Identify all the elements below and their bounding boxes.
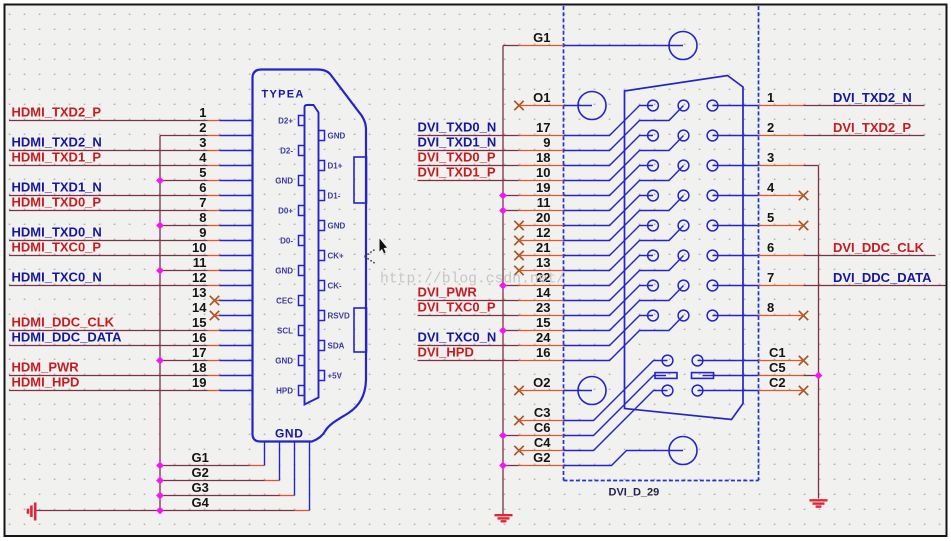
svg-text:DVI_DDC_CLK: DVI_DDC_CLK: [833, 240, 925, 255]
svg-text:DVI_D_29: DVI_D_29: [609, 487, 660, 499]
pin C5 line: [703, 375, 759, 377]
wire DVI pin C5 to ground bus: [759, 375, 804, 377]
wire HDMI pin 16: [9, 345, 208, 347]
wire stub DVI pin 5: [759, 225, 804, 227]
svg-text:G2: G2: [533, 450, 550, 465]
shell hole O1: [578, 92, 606, 120]
svg-text:17: 17: [536, 120, 550, 135]
flat pin C5 right: [692, 373, 714, 379]
pin 7 of DVI connector: [713, 285, 759, 287]
cursor cross mark: [365, 249, 377, 264]
svg-text:12: 12: [192, 270, 206, 285]
wire DVI pin 1: [759, 105, 804, 107]
wire ground G4: [35, 510, 294, 512]
pin 14 of DVI connector: [564, 256, 684, 301]
pad pin 17 GND: [299, 356, 305, 366]
pin G4 of HDMI connector: [309, 442, 311, 511]
wire HDMI pin 1: [9, 120, 208, 122]
wire DVI_TXC0_N to DVI pin 24: [418, 345, 519, 347]
svg-text:12: 12: [536, 225, 550, 240]
svg-text:GND: GND: [275, 176, 293, 185]
wire stub HDMI pin 13: [215, 300, 220, 302]
pin hole analog: [692, 355, 703, 366]
flat pin C5 left: [655, 373, 677, 379]
mounting tab lower: [354, 308, 367, 352]
pin 6 of HDMI connector: [220, 195, 252, 197]
wire DVI_HPD to DVI pin 16: [418, 360, 519, 362]
svg-text:HDMI_HPD: HDMI_HPD: [12, 375, 80, 390]
svg-text:HDM_PWR: HDM_PWR: [12, 360, 80, 375]
pin hole analog: [692, 385, 703, 396]
wire HDMI pin 4: [9, 165, 208, 167]
pad pin 10 CK+: [319, 251, 325, 261]
wire HDMI shield pin 11: [160, 270, 208, 272]
junction HDMI pin 8: [156, 222, 164, 230]
wire ground to DVI pin 22: [503, 285, 519, 287]
svg-text:HDMI_TXD0_P: HDMI_TXD0_P: [12, 195, 102, 210]
pin C4 line: [564, 391, 668, 451]
wire ground G3: [160, 495, 280, 497]
svg-text:HDMI_TXD2_N: HDMI_TXD2_N: [12, 135, 102, 150]
svg-text:2: 2: [199, 120, 206, 135]
pad pin 19 HPD: [299, 386, 305, 396]
svg-text:9: 9: [543, 135, 550, 150]
pin hole row 8 col C: [707, 310, 718, 321]
pin 3 of DVI connector: [713, 165, 759, 167]
svg-text:C4: C4: [534, 435, 551, 450]
pin 18 of DVI connector: [564, 136, 654, 166]
svg-text:HDMI_DDC_DATA: HDMI_DDC_DATA: [12, 330, 123, 345]
svg-text:6: 6: [767, 240, 774, 255]
cursor arrow: [380, 239, 388, 254]
svg-text:19: 19: [192, 375, 206, 390]
no-connect X DVI pin C1: [799, 356, 808, 365]
pin 21 of DVI connector: [564, 226, 654, 256]
pin 6 of DVI connector: [713, 255, 759, 257]
pad pin 14 RSVD: [319, 311, 325, 321]
svg-text:1: 1: [767, 90, 774, 105]
svg-text:DVI_TXC0_P: DVI_TXC0_P: [418, 300, 496, 315]
pad pin 3 D2-: [299, 146, 305, 156]
wire HDMI shield pin 8: [160, 225, 208, 227]
junction DVI pin C6: [499, 432, 507, 440]
wire stub DVI pin 4: [759, 195, 804, 197]
svg-text:DVI_TXD0_N: DVI_TXD0_N: [418, 120, 497, 135]
wire HDMI pin 9: [9, 240, 208, 242]
junction DVI pin G2: [499, 462, 507, 470]
svg-text:3: 3: [767, 150, 774, 165]
no-connect X pin O1: [514, 101, 523, 110]
pin G2 line: [564, 451, 684, 466]
wire stub DVI pin O2: [519, 390, 564, 392]
no-connect X DVI pin C4: [514, 446, 523, 455]
wire DVI_PWR to DVI pin 14: [418, 300, 519, 302]
wire ground bus DVI right x=818.5: [818, 166, 820, 499]
pin hole row 7 col A: [648, 280, 659, 291]
no-connect X DVI pin C3: [514, 416, 523, 425]
pad pin 13 CEC: [299, 296, 305, 306]
wire HDMI pin 15: [9, 330, 208, 332]
wire stub DVI pin C2: [759, 390, 804, 392]
svg-text:24: 24: [536, 330, 551, 345]
pin 11 of DVI connector: [564, 166, 684, 211]
pin hole row 4 col A: [648, 190, 659, 201]
pin C6 line: [564, 376, 667, 436]
junction DVI pin 11: [499, 207, 507, 215]
pin 15 of HDMI connector: [220, 330, 252, 332]
wire HDMI pin 18: [9, 375, 208, 377]
wire stub O1: [519, 105, 564, 107]
wire HDMI pin 3: [9, 150, 208, 152]
svg-text:HDMI_TXD1_P: HDMI_TXD1_P: [12, 150, 102, 165]
wire HDMI pin 6: [9, 195, 208, 197]
svg-text:C1: C1: [769, 345, 786, 360]
no-connect X DVI pin 13: [514, 266, 523, 275]
wire HDMI shield pin 5: [160, 180, 208, 182]
svg-text:DVI_TXD1_N: DVI_TXD1_N: [418, 135, 497, 150]
pin 24 of DVI connector: [564, 316, 654, 346]
svg-text:SCL: SCL: [277, 326, 293, 335]
pin hole row 2 col A: [648, 130, 659, 141]
svg-text:4: 4: [767, 180, 775, 195]
pin 20 of DVI connector: [564, 196, 654, 226]
pin 13 of HDMI connector: [220, 300, 252, 302]
pin 14 of HDMI connector: [220, 315, 252, 317]
svg-text:D2+: D2+: [278, 116, 293, 125]
wire stub DVI pin 8: [759, 315, 804, 317]
pin 1 of HDMI connector: [220, 120, 252, 122]
wire DVI_TXD0_P to DVI pin 18: [418, 165, 519, 167]
svg-text:GND: GND: [328, 221, 346, 230]
pin hole row 8 col A: [648, 310, 659, 321]
junction ground G4: [156, 507, 164, 515]
pin hole row 1 col B: [678, 100, 689, 111]
wire DVI_TXC0_P to DVI pin 23: [418, 315, 519, 317]
pad pin 16 SDA: [319, 341, 325, 351]
pad pin 2 GND: [319, 131, 325, 141]
pin hole row 6 col C: [707, 250, 718, 261]
pin hole analog: [662, 385, 673, 396]
no-connect X DVI pin 5: [799, 221, 808, 230]
svg-text:DVI_TXC0_N: DVI_TXC0_N: [418, 330, 497, 345]
wire stub DVI pin 21: [519, 255, 564, 257]
wire stub DVI pin 12: [519, 240, 564, 242]
pin hole row 4 col B: [678, 190, 689, 201]
pin hole row 7 col B: [678, 280, 689, 291]
svg-text:DVI_TXD0_P: DVI_TXD0_P: [418, 150, 496, 165]
svg-text:23: 23: [536, 300, 550, 315]
svg-text:http://blog.csdn.net/: http://blog.csdn.net/: [380, 272, 565, 288]
pin G1 of HDMI connector: [264, 442, 266, 466]
wire ground bus HDMI shields x=160: [159, 136, 161, 511]
svg-text:18: 18: [192, 360, 206, 375]
pin 10 of DVI connector: [564, 136, 684, 181]
svg-text:15: 15: [536, 315, 550, 330]
pin 23 of DVI connector: [564, 286, 654, 316]
svg-text:14: 14: [192, 300, 207, 315]
svg-text:RSVD: RSVD: [328, 311, 350, 320]
pin hole row 6 col A: [648, 250, 659, 261]
wire ground G1: [160, 465, 250, 467]
pin 8 of HDMI connector: [220, 225, 252, 227]
wire DVI pin 3 to ground bus: [759, 165, 804, 167]
svg-text:G4: G4: [192, 495, 210, 510]
pin 9 of DVI connector: [564, 106, 684, 151]
svg-text:C6: C6: [534, 420, 551, 435]
pin hole row 6 col B: [678, 250, 689, 261]
no-connect X DVI pin O2: [514, 386, 523, 395]
svg-text:10: 10: [192, 240, 206, 255]
no-connect X DVI pin 21: [514, 251, 523, 260]
connector DVI body: [625, 76, 744, 420]
no-connect X DVI pin C2: [799, 386, 808, 395]
svg-text:O1: O1: [533, 90, 550, 105]
svg-text:CEC: CEC: [276, 296, 293, 305]
pin 12 of HDMI connector: [220, 285, 252, 287]
pin 17 of DVI connector: [564, 106, 654, 136]
junction ground G1: [156, 462, 164, 470]
pin G3 of HDMI connector: [294, 442, 296, 496]
pin hole analog: [662, 355, 673, 366]
wire stub DVI pin C3: [519, 420, 564, 422]
pin hole row 5 col A: [648, 220, 659, 231]
wire HDMI shield pin 17: [160, 360, 208, 362]
svg-text:CK+: CK+: [328, 251, 345, 260]
pin 9 of HDMI connector: [220, 240, 252, 242]
no-connect X DVI pin 4: [799, 191, 808, 200]
svg-text:13: 13: [536, 255, 550, 270]
wire HDMI pin 12: [9, 285, 208, 287]
shell hole G2: [669, 437, 697, 465]
pad pin 18 +5V: [319, 371, 325, 381]
wire DVI_TXD1_N to DVI pin 9: [418, 150, 519, 152]
no-connect X HDMI pin 13: [210, 296, 219, 305]
pin 16 of HDMI connector: [220, 345, 252, 347]
svg-text:6: 6: [199, 180, 206, 195]
wire ground bus DVI left x=503: [502, 46, 504, 515]
svg-text:D0+: D0+: [278, 206, 293, 215]
svg-text:D1+: D1+: [328, 161, 343, 170]
svg-text:HDMI_DDC_CLK: HDMI_DDC_CLK: [12, 315, 115, 330]
svg-text:HDMI_TXD1_N: HDMI_TXD1_N: [12, 180, 102, 195]
pad pin 7 D0+: [299, 206, 305, 216]
pin 4 of DVI connector: [713, 195, 759, 197]
junction ground G2: [156, 477, 164, 485]
junction HDMI pin 5: [156, 177, 164, 185]
wire HDMI pin 7: [9, 210, 208, 212]
pin 2 of HDMI connector: [220, 135, 252, 137]
mounting tab upper: [354, 157, 367, 203]
pin 2 of DVI connector: [713, 135, 759, 137]
svg-text:9: 9: [199, 225, 206, 240]
svg-text:4: 4: [199, 150, 207, 165]
svg-text:10: 10: [536, 165, 550, 180]
pin 19 of HDMI connector: [220, 390, 252, 392]
no-connect X DVI pin 12: [514, 236, 523, 245]
svg-text:+5V: +5V: [328, 371, 343, 380]
connector HDMI TYPEA body: [253, 70, 367, 442]
pin 7 of HDMI connector: [220, 210, 252, 212]
svg-text:7: 7: [199, 195, 206, 210]
pin hole row 3 col A: [648, 160, 659, 171]
pin hole row 1 col C: [707, 100, 718, 111]
svg-text:8: 8: [767, 300, 774, 315]
pad pin 5 GND: [299, 176, 305, 186]
wire DVI pin 2: [759, 135, 804, 137]
svg-text:20: 20: [536, 210, 550, 225]
svg-text:C2: C2: [769, 375, 786, 390]
wire stub DVI pin C1: [759, 360, 804, 362]
svg-text:DVI_HPD: DVI_HPD: [418, 345, 474, 360]
HDMI tongue: [305, 105, 319, 405]
pin 10 of HDMI connector: [220, 255, 252, 257]
svg-text:19: 19: [536, 180, 550, 195]
sheet symbol DVI_D_29 dashed box: [564, 6, 759, 481]
svg-text:13: 13: [192, 285, 206, 300]
junction DVI pin 19: [499, 192, 507, 200]
wire ground to DVI pin G2: [503, 465, 519, 467]
pin C3 line: [564, 361, 668, 421]
junction HDMI pin 11: [156, 267, 164, 275]
svg-text:DVI_DDC_DATA: DVI_DDC_DATA: [833, 270, 932, 285]
wire stub HDMI pin 14: [215, 315, 220, 317]
pin hole row 2 col B: [678, 130, 689, 141]
junction HDMI pin 17: [156, 357, 164, 365]
pin C2 line: [698, 390, 759, 392]
pad pin 1 D2+: [299, 116, 305, 126]
pin 22 of DVI connector: [564, 256, 654, 286]
svg-text:8: 8: [199, 210, 206, 225]
svg-text:DVI_TXD1_P: DVI_TXD1_P: [418, 165, 496, 180]
pin 12 of DVI connector: [564, 196, 684, 241]
svg-text:2: 2: [767, 120, 774, 135]
wire ground to DVI pin 11: [503, 210, 519, 212]
pin 3 of HDMI connector: [220, 150, 252, 152]
pin O1 line: [564, 105, 593, 107]
wire ground to DVI pin 19: [503, 195, 519, 197]
svg-text:GND: GND: [328, 131, 346, 140]
svg-text:16: 16: [536, 345, 550, 360]
svg-text:18: 18: [536, 150, 550, 165]
junction DVI pin 22: [499, 282, 507, 290]
pin hole row 2 col C: [707, 130, 718, 141]
pin G1 line: [564, 45, 684, 47]
svg-text:D2-: D2-: [280, 146, 293, 155]
svg-text:3: 3: [199, 135, 206, 150]
wire HDMI pin 19: [9, 390, 208, 392]
svg-text:11: 11: [537, 195, 551, 210]
pin 17 of HDMI connector: [220, 360, 252, 362]
pad pin 12 CK-: [319, 281, 325, 291]
pin 8 of DVI connector: [713, 315, 759, 317]
svg-text:17: 17: [192, 345, 206, 360]
pin 19 of DVI connector: [564, 166, 654, 196]
wire stub DVI pin 13: [519, 270, 564, 272]
svg-text:DVI_TXD2_N: DVI_TXD2_N: [833, 90, 912, 105]
pin 4 of HDMI connector: [220, 165, 252, 167]
svg-text:15: 15: [192, 315, 206, 330]
svg-text:5: 5: [767, 210, 774, 225]
svg-text:DVI_TXD2_P: DVI_TXD2_P: [833, 120, 911, 135]
wire HDMI shield pin 2: [160, 135, 208, 137]
junction ground G3: [156, 492, 164, 500]
wire HDMI pin 10: [9, 255, 208, 257]
wire DVI pin 7: [759, 285, 804, 287]
svg-text:G3: G3: [192, 480, 209, 495]
junction DVI pin C5: [815, 372, 823, 380]
no-connect X DVI pin 20: [514, 221, 523, 230]
shell hole G1: [669, 32, 697, 60]
svg-text:GND: GND: [275, 356, 293, 365]
svg-text:TYPEA: TYPEA: [262, 89, 305, 101]
wire ground G2: [160, 480, 265, 482]
svg-text:HDMI_TXC0_P: HDMI_TXC0_P: [12, 240, 102, 255]
ground symbol left: [28, 503, 35, 521]
pin C1 line: [698, 360, 759, 362]
svg-text:G1: G1: [192, 450, 209, 465]
svg-text:C3: C3: [534, 405, 551, 420]
pin 11 of HDMI connector: [220, 270, 252, 272]
svg-text:5: 5: [199, 165, 206, 180]
wire node G1: [503, 45, 519, 47]
svg-text:21: 21: [536, 240, 550, 255]
wire ground to DVI pin 15: [503, 330, 519, 332]
svg-text:C5: C5: [769, 360, 786, 375]
wire DVI_TXD0_N to DVI pin 17: [418, 135, 519, 137]
pad pin 6 D1-: [319, 191, 325, 201]
pin hole row 5 col B: [678, 220, 689, 231]
svg-text:11: 11: [193, 255, 207, 270]
pin hole row 4 col C: [707, 190, 718, 201]
pin 1 of DVI connector: [713, 105, 759, 107]
svg-text:O2: O2: [533, 375, 550, 390]
svg-text:D1-: D1-: [328, 191, 341, 200]
pin O2 line: [564, 390, 593, 392]
svg-text:D0-: D0-: [280, 236, 293, 245]
pin G2 of HDMI connector: [279, 442, 281, 481]
pin 13 of DVI connector: [564, 226, 684, 271]
svg-text:G2: G2: [192, 465, 209, 480]
pad pin 9 D0-: [299, 236, 305, 246]
ground symbol DVI left: [495, 515, 513, 521]
svg-text:HDMI_TXC0_N: HDMI_TXC0_N: [12, 270, 102, 285]
wire stub DVI pin 20: [519, 225, 564, 227]
svg-text:HPD: HPD: [276, 386, 293, 395]
shell hole O2: [578, 377, 606, 405]
svg-text:CK-: CK-: [328, 281, 343, 290]
pad pin 15 SCL: [299, 326, 305, 336]
pin 5 of DVI connector: [713, 225, 759, 227]
svg-text:7: 7: [767, 270, 774, 285]
pin hole row 8 col B: [678, 310, 689, 321]
svg-text:GND: GND: [275, 266, 293, 275]
svg-text:G1: G1: [533, 30, 550, 45]
pad pin 8 GND: [319, 221, 325, 231]
pad pin 11 GND: [299, 266, 305, 276]
no-connect X HDMI pin 14: [210, 311, 219, 320]
pad pin 4 D1+: [319, 161, 325, 171]
ground symbol DVI right: [810, 500, 828, 506]
svg-text:HDMI_TXD2_P: HDMI_TXD2_P: [12, 105, 102, 120]
pin hole row 3 col B: [678, 160, 689, 171]
svg-text:SDA: SDA: [328, 341, 345, 350]
pin hole row 7 col C: [707, 280, 718, 291]
svg-text:16: 16: [192, 330, 206, 345]
pin 15 of DVI connector: [564, 286, 684, 331]
svg-text:GND: GND: [275, 427, 303, 441]
wire stub DVI pin C4: [519, 450, 564, 452]
wire DVI pin 6: [759, 255, 804, 257]
